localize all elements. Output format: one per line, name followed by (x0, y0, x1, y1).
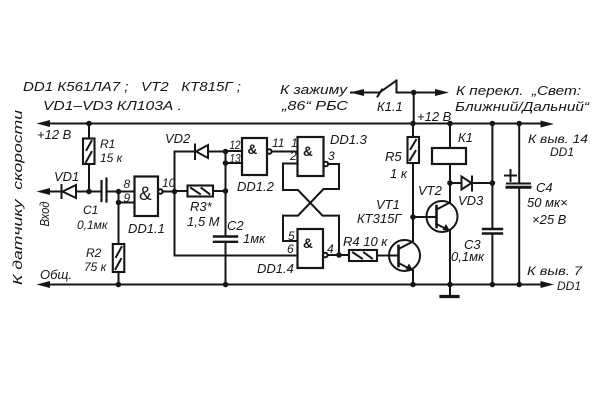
wire: C1 to DD1.1 pin 8 (107, 191, 135, 193)
svg-text:DD1.1: DD1.1 (128, 221, 165, 236)
wire: pin 11 to DD1.3 pin 1 (272, 151, 298, 153)
svg-text:2: 2 (289, 149, 297, 163)
gate DD1.3 (298, 137, 329, 176)
gate DD1.1 (135, 177, 163, 217)
svg-text:13: 13 (230, 152, 241, 166)
node: top-right arrow (К выв. 14) (541, 121, 555, 128)
junction: VT1 emitter on ground rail (410, 282, 416, 288)
svg-text:×25 В: ×25 В (532, 212, 567, 227)
svg-text:R3*: R3* (190, 199, 213, 214)
svg-text:С1: С1 (83, 203, 98, 217)
svg-text:Ближний/Дальний“: Ближний/Дальний“ (455, 99, 590, 114)
diode VD1 (62, 185, 102, 198)
label VT1 КТ315Г (357, 197, 402, 226)
svg-text:DD1.3: DD1.3 (330, 132, 368, 147)
svg-text:&: & (248, 142, 258, 157)
svg-text:К датчику скорости: К датчику скорости (10, 110, 25, 285)
junction: input node (86, 189, 92, 195)
diode VD2 (175, 145, 226, 160)
svg-text:R5: R5 (385, 149, 402, 164)
label C2 1мк (227, 218, 266, 246)
gate DD1.2 (242, 138, 272, 175)
svg-text:&: & (303, 144, 313, 159)
svg-text:DD1: DD1 (550, 145, 574, 159)
junction: C2 on ground rail (223, 282, 229, 288)
junction: pin13 node (223, 160, 229, 166)
switch contact K1.1 (351, 81, 436, 97)
gate DD1.4 (298, 229, 328, 268)
wire: RC node vertical (225, 152, 227, 237)
svg-text:Общ.: Общ. (40, 267, 72, 282)
transistor VT2 (413, 183, 458, 285)
label К выв. 7 DD1 (527, 264, 584, 293)
svg-text:&: & (139, 184, 152, 205)
capacitor C4 (polarized) (505, 124, 530, 285)
svg-text:DD1: DD1 (557, 279, 581, 293)
node: ground rail left arrow (37, 281, 51, 288)
label C3 0,1мк (451, 237, 485, 264)
ground symbol (441, 285, 458, 297)
svg-text:5: 5 (288, 229, 295, 243)
node: +12V left arrow (37, 120, 51, 127)
svg-text:&: & (303, 236, 313, 251)
wire: pin9 branch (119, 192, 135, 203)
svg-text:К выв. 14: К выв. 14 (528, 132, 588, 146)
svg-text:VD1–VD3 КЛ103А .: VD1–VD3 КЛ103А . (43, 98, 182, 113)
svg-text:VT2: VT2 (418, 183, 443, 198)
junction: K1 on top rail (447, 121, 453, 127)
node: bottom-right arrow (К выв. 7) (541, 281, 555, 288)
svg-text:0,1мк: 0,1мк (451, 249, 485, 264)
capacitor C1 (102, 179, 107, 202)
label К выв. 14 DD1 (528, 132, 588, 159)
wire: DD1.1 output pin 10 (163, 191, 175, 193)
svg-text:8: 8 (124, 177, 131, 191)
diode VD3 (450, 177, 492, 191)
relay coil K1 (432, 124, 466, 184)
junction: VT1 collector / R5 / VT2 base node (410, 214, 416, 220)
junction: C3 on ground rail (490, 282, 496, 288)
svg-text:75 к: 75 к (84, 260, 108, 274)
svg-text:9: 9 (124, 191, 131, 205)
svg-text:К перекл. „Свет:: К перекл. „Свет: (456, 83, 581, 98)
svg-text:R1: R1 (100, 137, 115, 151)
svg-text:11: 11 (272, 136, 284, 150)
label C4 50 мк × 25 В (527, 180, 568, 227)
svg-text:R4 10 к: R4 10 к (343, 234, 388, 249)
capacitor C3 (483, 229, 502, 234)
junction: R1 on top rail (86, 121, 92, 127)
svg-text:VT1: VT1 (376, 197, 400, 212)
wire: output node vertical (VD2 top / down to pin 6) (174, 152, 176, 256)
label R3* 1,5 М (187, 199, 220, 229)
junction: R2 top node (116, 200, 122, 206)
svg-text:К1: К1 (458, 130, 473, 145)
svg-text:1мк: 1мк (243, 231, 266, 246)
label R2 75 к (84, 246, 108, 274)
junction: C4 on top rail (516, 121, 522, 127)
svg-text:VD1: VD1 (54, 169, 79, 184)
net label "К перекл. „Свет: Ближний/Дальний" (455, 83, 590, 114)
svg-text:С2: С2 (227, 218, 244, 233)
wire: pin 13 (226, 162, 243, 164)
resistor R1 (83, 124, 95, 192)
junction: K1 / VD3 / VT2 collector node (447, 180, 453, 186)
svg-text:1 к: 1 к (390, 166, 408, 181)
junction: K1.1 to +12V node (411, 90, 417, 96)
junction: pin4 / cross-couple node (336, 252, 342, 258)
wire: DD1.3 output to DD1.4 pin 5 (283, 164, 339, 241)
transistor VT1 (389, 217, 420, 285)
svg-text:1: 1 (291, 136, 298, 150)
resistor R3 (175, 186, 226, 197)
svg-text:+12 В: +12 В (417, 109, 452, 124)
svg-text:DD1.2: DD1.2 (237, 179, 275, 194)
wire: ground bottom rail (43, 284, 548, 286)
svg-text:КТ315Г: КТ315Г (357, 211, 402, 226)
wire: C2 to ground rail (225, 242, 227, 285)
svg-text:6: 6 (287, 242, 294, 256)
junction: VT2 emitter / ground symbol node (447, 282, 453, 288)
label C1 0,1мк (77, 203, 109, 232)
wire: VD3/C3 vertical branch (491, 124, 493, 285)
junction: C4 on ground rail (516, 282, 522, 288)
wire: DD1.4 output pin 4 to R4 (328, 254, 349, 256)
wire: to DD1.4 pin 6 (175, 255, 298, 257)
svg-text:Вход: Вход (37, 202, 52, 227)
svg-text:„86“ РБС: „86“ РБС (281, 98, 349, 113)
junction: VD2/pin12 node (223, 149, 229, 155)
resistor R4 (349, 250, 398, 261)
svg-text:3: 3 (328, 149, 335, 163)
svg-text:К зажиму: К зажиму (280, 82, 349, 97)
svg-text:К выв. 7: К выв. 7 (527, 264, 584, 278)
svg-text:12: 12 (230, 138, 241, 152)
junction: DD1.1 output node (172, 189, 178, 195)
svg-text:4: 4 (327, 242, 334, 256)
junction: VD3 cathode node (490, 180, 496, 186)
svg-text:С4: С4 (536, 180, 553, 195)
net label "К зажиму „86" РБС" (280, 82, 349, 113)
junction: branch on top rail (490, 121, 496, 127)
svg-text:К1.1: К1.1 (377, 99, 403, 114)
svg-text:DD1.4: DD1.4 (257, 261, 294, 276)
svg-text:+12 В: +12 В (37, 127, 72, 142)
junction: R3/C2 node (223, 188, 229, 194)
label R1 15 к (100, 137, 124, 165)
junction: R2 on ground rail (116, 282, 122, 288)
node: K1.1 right arrow (К перекл.) (435, 89, 449, 96)
wire: DD1.3 pin2 cross-coupling to DD1.4 output (283, 164, 339, 256)
svg-text:15 к: 15 к (100, 151, 124, 165)
node: K1.1 left arrow (К зажиму) (350, 89, 364, 96)
svg-text:DD1 К561ЛА7 ; VT2 КТ815Г ;: DD1 К561ЛА7 ; VT2 КТ815Г ; (23, 79, 241, 94)
wire: +12V top rail (43, 123, 548, 125)
label R5 1 к (385, 149, 408, 181)
resistor R5 (408, 124, 420, 218)
wire: input rail (43, 191, 62, 193)
svg-text:R2: R2 (86, 246, 102, 260)
svg-text:1,5 М: 1,5 М (187, 214, 220, 229)
capacitor C2 (214, 237, 237, 242)
junction: R5 on top rail (410, 121, 416, 127)
wire: pin 12 (226, 150, 243, 152)
node: input left arrow (37, 188, 51, 195)
resistor R2 (113, 203, 125, 285)
wire: K1.1 down to top rail (413, 93, 415, 124)
junction: pin9 node (116, 189, 122, 195)
svg-text:VD2: VD2 (165, 131, 191, 146)
svg-text:VD3: VD3 (458, 193, 484, 208)
svg-text:0,1мк: 0,1мк (77, 218, 109, 232)
svg-text:50 мк×: 50 мк× (527, 195, 568, 210)
